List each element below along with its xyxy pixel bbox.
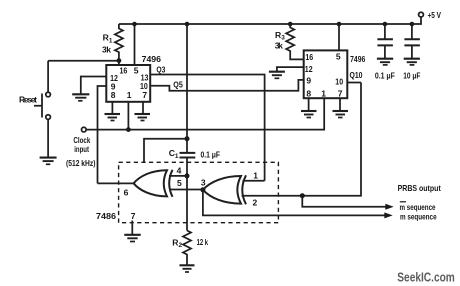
resistor R2 (183, 231, 191, 265)
wire XOR-B output 6 (98, 182, 134, 184)
IC U1 7496 box (106, 65, 150, 102)
ground U1 pin8 (105, 113, 121, 115)
+5V terminal circle (419, 12, 424, 17)
svg-text:12: 12 (305, 64, 313, 74)
ground U1 pin12 (72, 93, 89, 95)
wire reset to pin16 (48, 60, 119, 62)
svg-text:SeekIC.com: SeekIC.com (397, 271, 455, 285)
wire mbar sequence output (302, 196, 386, 207)
svg-text:5: 5 (134, 65, 139, 75)
svg-text:1: 1 (253, 171, 258, 181)
node XOR input4 (185, 173, 190, 178)
wire Q3 from U1 pin13 to XOR gate input 1 (150, 75, 264, 181)
wire +5V supply rail (119, 17, 421, 24)
wire m sequence output (203, 190, 385, 216)
node R1-reset-pin16 (117, 58, 122, 63)
svg-text:6: 6 (124, 187, 129, 197)
svg-text:8: 8 (306, 88, 311, 98)
ground U1 pin7 (135, 113, 151, 115)
capacitor C3 10uF (411, 24, 413, 39)
svg-text:16: 16 (305, 52, 313, 62)
wire U1 pin7 to ground (142, 102, 144, 114)
clock input terminal (82, 127, 87, 132)
wire U2 pin8 to ground (308, 98, 310, 110)
wire XOR-A input 1 (243, 180, 265, 182)
svg-text:5: 5 (336, 51, 341, 61)
node rail-C1 (185, 22, 190, 27)
node rail-R3 (288, 22, 293, 27)
svg-text:0.1 μF: 0.1 μF (201, 150, 221, 160)
svg-text:Q5: Q5 (173, 80, 183, 90)
node XOR-A output 3 (200, 187, 205, 192)
node rail-pin5a (132, 22, 137, 27)
node rail-cap2 (410, 22, 415, 27)
svg-text:input: input (74, 144, 89, 154)
wire C1 branch from rail (186, 24, 188, 153)
svg-text:Q10: Q10 (350, 70, 363, 80)
svg-text:3: 3 (201, 178, 206, 188)
switch S1 reset pushbutton (47, 61, 49, 92)
node rail-pin5b (337, 22, 342, 27)
wire XOR-B input 4 (169, 175, 187, 177)
svg-text:7: 7 (142, 90, 147, 100)
svg-text:7486: 7486 (96, 211, 116, 221)
svg-text:0.1 μF: 0.1 μF (375, 71, 395, 81)
wire clock line to U2 pin1 (86, 98, 324, 129)
svg-text:7496: 7496 (350, 54, 365, 64)
wire U1 pin12 to ground (81, 77, 107, 94)
svg-text:8: 8 (111, 90, 116, 100)
wire U1 pin5 to rail (134, 24, 136, 65)
svg-text:12 k: 12 k (197, 237, 209, 247)
op-amp: XOR gate U3A pins 1,2,3 (203, 176, 241, 204)
node clock-pin1 (126, 127, 131, 132)
node C1-7486vcc (185, 136, 190, 141)
wire U2 pin7 to ground (339, 98, 341, 110)
svg-text:m sequence: m sequence (400, 202, 436, 212)
capacitor C2 0.1uF (384, 24, 386, 39)
wire C1 to XOR input 4 and R2 (186, 158, 188, 231)
wire U2 pin5 to rail (338, 24, 340, 50)
ground U2 pin8 (301, 110, 317, 112)
resistor R1 (115, 24, 123, 65)
dashed box 7486 package (119, 162, 279, 222)
ground R2 (180, 264, 195, 266)
svg-text:16: 16 (120, 66, 128, 76)
svg-text:7: 7 (338, 88, 343, 98)
capacitor C1 (180, 153, 196, 158)
wire U1 pin8 to ground (111, 102, 113, 114)
wire U2 pin12 to ground (277, 67, 304, 71)
svg-text:2: 2 (253, 197, 258, 207)
svg-text:1: 1 (321, 88, 326, 98)
wire XOR-B input 5 from XOR-A output (169, 189, 203, 191)
svg-text:7: 7 (131, 211, 136, 221)
svg-text:m sequence: m sequence (400, 212, 437, 222)
svg-text:10: 10 (335, 77, 343, 87)
ground U2 pin7 (333, 110, 349, 112)
wire U1 pin1 to clock line (127, 102, 129, 130)
node rail-cap1 (383, 22, 388, 27)
svg-text:10 μF: 10 μF (403, 71, 420, 81)
svg-text:Q3: Q3 (156, 65, 165, 75)
node mbar tap (300, 193, 305, 198)
ground C3 (404, 58, 420, 60)
svg-text:7496: 7496 (142, 54, 162, 64)
wire Q5 from U1 pin10 to U2 pin9 (150, 80, 304, 91)
ground reset (40, 157, 57, 159)
ground C2 (377, 58, 393, 60)
svg-text:3 k: 3 k (102, 45, 111, 55)
svg-text:+5 V: +5 V (428, 10, 442, 20)
wire 7486 pin7 to ground (131, 221, 133, 235)
svg-text:4: 4 (177, 165, 182, 175)
resistor R3 (286, 24, 304, 59)
svg-text:1: 1 (127, 90, 132, 100)
wire 7486 Vcc branch (144, 139, 187, 163)
IC U2 7496 box (304, 50, 348, 98)
svg-text:9: 9 (306, 76, 311, 86)
wire XOR-A input 2 from Q10 (242, 83, 362, 196)
wire Q10 from U2 pin10 (347, 82, 361, 84)
svg-text:5: 5 (177, 178, 182, 188)
op-amp: XOR gate U3B pins 4,5,6 (134, 170, 167, 196)
svg-text:Reset: Reset (19, 94, 37, 104)
svg-text:3 k: 3 k (275, 41, 283, 51)
svg-text:PRBS output: PRBS output (398, 183, 441, 193)
wire U1 pin9 serial input from XOR output (98, 86, 107, 183)
ground U2 pin12 (269, 71, 285, 73)
svg-text:(512 kHz): (512 kHz) (66, 158, 96, 168)
ground 7486 pin7 (124, 234, 140, 236)
